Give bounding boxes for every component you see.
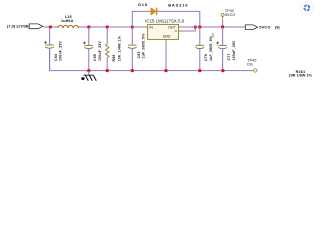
node junctions ground rail: [87, 69, 90, 72]
wire input connector to L15: [43, 26, 58, 29]
svg-text:1uF_0805_5%: 1uF_0805_5%: [209, 35, 213, 61]
node junction TP42 / C77: [221, 25, 224, 28]
svg-text:10K_1/4W_1%: 10K_1/4W_1%: [117, 35, 121, 61]
wire OUT pin 2 jog: [183, 27, 196, 31]
svg-text:100uF_25V: 100uF_25V: [98, 40, 102, 61]
wire diode cathode to output: [157, 11, 199, 27]
svg-text:DG: DG: [247, 63, 253, 67]
resistor R381 label (symbol off-canvas): [289, 70, 313, 78]
resistor R69: [105, 27, 121, 71]
svg-text:IC15 LM1117SX-5.0: IC15 LM1117SX-5.0: [145, 18, 185, 23]
regulator IC15 LM1117SX-5.0: [143, 18, 185, 44]
wire diode branch riser: [132, 11, 151, 27]
off-page connector 12VSB input: [29, 24, 43, 29]
svg-text:R69: R69: [112, 54, 116, 61]
svg-text:C65: C65: [93, 54, 97, 61]
node junction OUT pins: [194, 25, 197, 28]
test point TP42: [221, 9, 235, 27]
svg-text:D18: D18: [138, 2, 148, 7]
svg-text:C77: C77: [227, 53, 231, 60]
node junction diode / C76: [198, 25, 201, 28]
wire output rail: [184, 26, 246, 28]
svg-text:12VSB: 12VSB: [16, 25, 29, 29]
ground symbol: [81, 71, 96, 81]
svg-text:100uF_25V: 100uF_25V: [59, 40, 63, 61]
svg-text:(9): (9): [275, 26, 280, 30]
inductor L15: [58, 15, 79, 28]
capacitor C63: [128, 27, 146, 71]
capacitor C65: [83, 27, 102, 71]
wire ground rail: [50, 48, 253, 70]
mouse cursor artifact: [212, 32, 215, 37]
node junction C65: [87, 25, 90, 28]
svg-text:C63: C63: [137, 51, 141, 58]
capacitor C64: [44, 27, 62, 71]
svg-text:1uF_0805_5%: 1uF_0805_5%: [142, 33, 146, 59]
node junction 12VSB / C64: [49, 25, 52, 28]
wire L15 to IC15 IN: [78, 26, 143, 28]
net label (7,9) 12VSB: [7, 25, 29, 29]
svg-text:100uF_25V: 100uF_25V: [232, 40, 236, 61]
svg-text:C76: C76: [204, 54, 208, 61]
svg-text:20R 1/8W 1%: 20R 1/8W 1%: [289, 74, 313, 78]
svg-text:(7,9): (7,9): [7, 25, 16, 29]
capacitor C76: [195, 27, 212, 71]
lens icon overlay: [301, 1, 314, 14]
svg-text:5VCO: 5VCO: [225, 13, 235, 17]
svg-text:C64: C64: [54, 54, 58, 61]
svg-text:GND: GND: [163, 35, 171, 39]
svg-text:IN: IN: [149, 26, 153, 30]
wire GND pin down: [165, 44, 167, 70]
off-page connector 5VCO output: [245, 25, 280, 30]
node junction C63 / diode branch: [131, 25, 134, 28]
capacitor C77: [216, 27, 235, 71]
test point TP45: [247, 59, 257, 73]
diode D18 BAS316: [138, 2, 188, 15]
node junction R69: [106, 25, 109, 28]
svg-text:1uH6A: 1uH6A: [61, 19, 74, 23]
svg-text:5VCO: 5VCO: [259, 26, 270, 30]
svg-text:BAS316: BAS316: [168, 2, 188, 7]
